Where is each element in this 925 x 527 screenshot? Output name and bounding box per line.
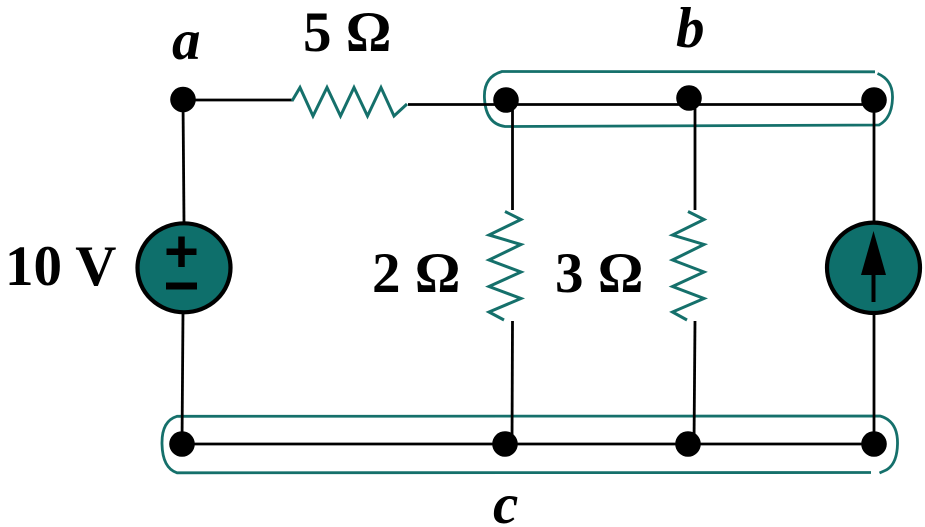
node c3 (junction dot) — [675, 431, 701, 457]
node a (junction dot) — [170, 87, 196, 113]
node c2 (junction dot) — [492, 431, 518, 457]
node b2 (junction dot) — [676, 85, 702, 111]
wire: node b2 down to resistor R3 top — [694, 104, 697, 210]
svg-text:b: b — [676, 0, 705, 60]
svg-text:5 Ω: 5 Ω — [303, 1, 391, 64]
node-c enclosure (teal rounded loop) — [162, 416, 898, 473]
wire: voltage source V1 bottom down to node c1 — [182, 312, 183, 444]
svg-text:a: a — [172, 9, 201, 72]
node c4 (junction dot) — [861, 431, 887, 457]
wire: current source I1 bottom down to node c4 — [873, 313, 876, 444]
wire: bottom rail c1 to c4 — [182, 443, 874, 446]
wire: node b3 down to current source I1 top — [873, 104, 876, 223]
resistor R1 5-ohm (horizontal zigzag) — [292, 88, 407, 117]
wire: resistor R1 to node b rail (top rail through b1,b2 to b3) — [408, 103, 874, 106]
wire: resistor R2 bottom down to node c2 — [511, 321, 514, 444]
wire: node a down to voltage source V1 top — [183, 100, 184, 223]
svg-text:3 Ω: 3 Ω — [555, 242, 643, 305]
resistor R2 2-ohm (vertical zigzag) — [489, 212, 521, 321]
wire: resistor R3 bottom down to node c3 — [694, 321, 695, 444]
wire: node b1 down to resistor R2 top — [511, 104, 514, 210]
voltage source V1 (teal circle, + over - ) — [138, 223, 231, 312]
wire: node a to resistor R1 — [186, 99, 293, 102]
node b3 (junction dot) — [861, 87, 887, 113]
node-b enclosure (teal rounded loop) — [484, 72, 892, 127]
svg-text:2 Ω: 2 Ω — [372, 242, 460, 305]
svg-text:10 V: 10 V — [5, 235, 116, 298]
svg-text:c: c — [493, 473, 518, 527]
node b1 (junction dot) — [493, 87, 519, 113]
current source I1 (teal circle with up arrow) — [827, 223, 920, 313]
resistor R3 3-ohm (vertical zigzag) — [673, 212, 705, 321]
node c1 (junction dot) — [169, 431, 195, 457]
